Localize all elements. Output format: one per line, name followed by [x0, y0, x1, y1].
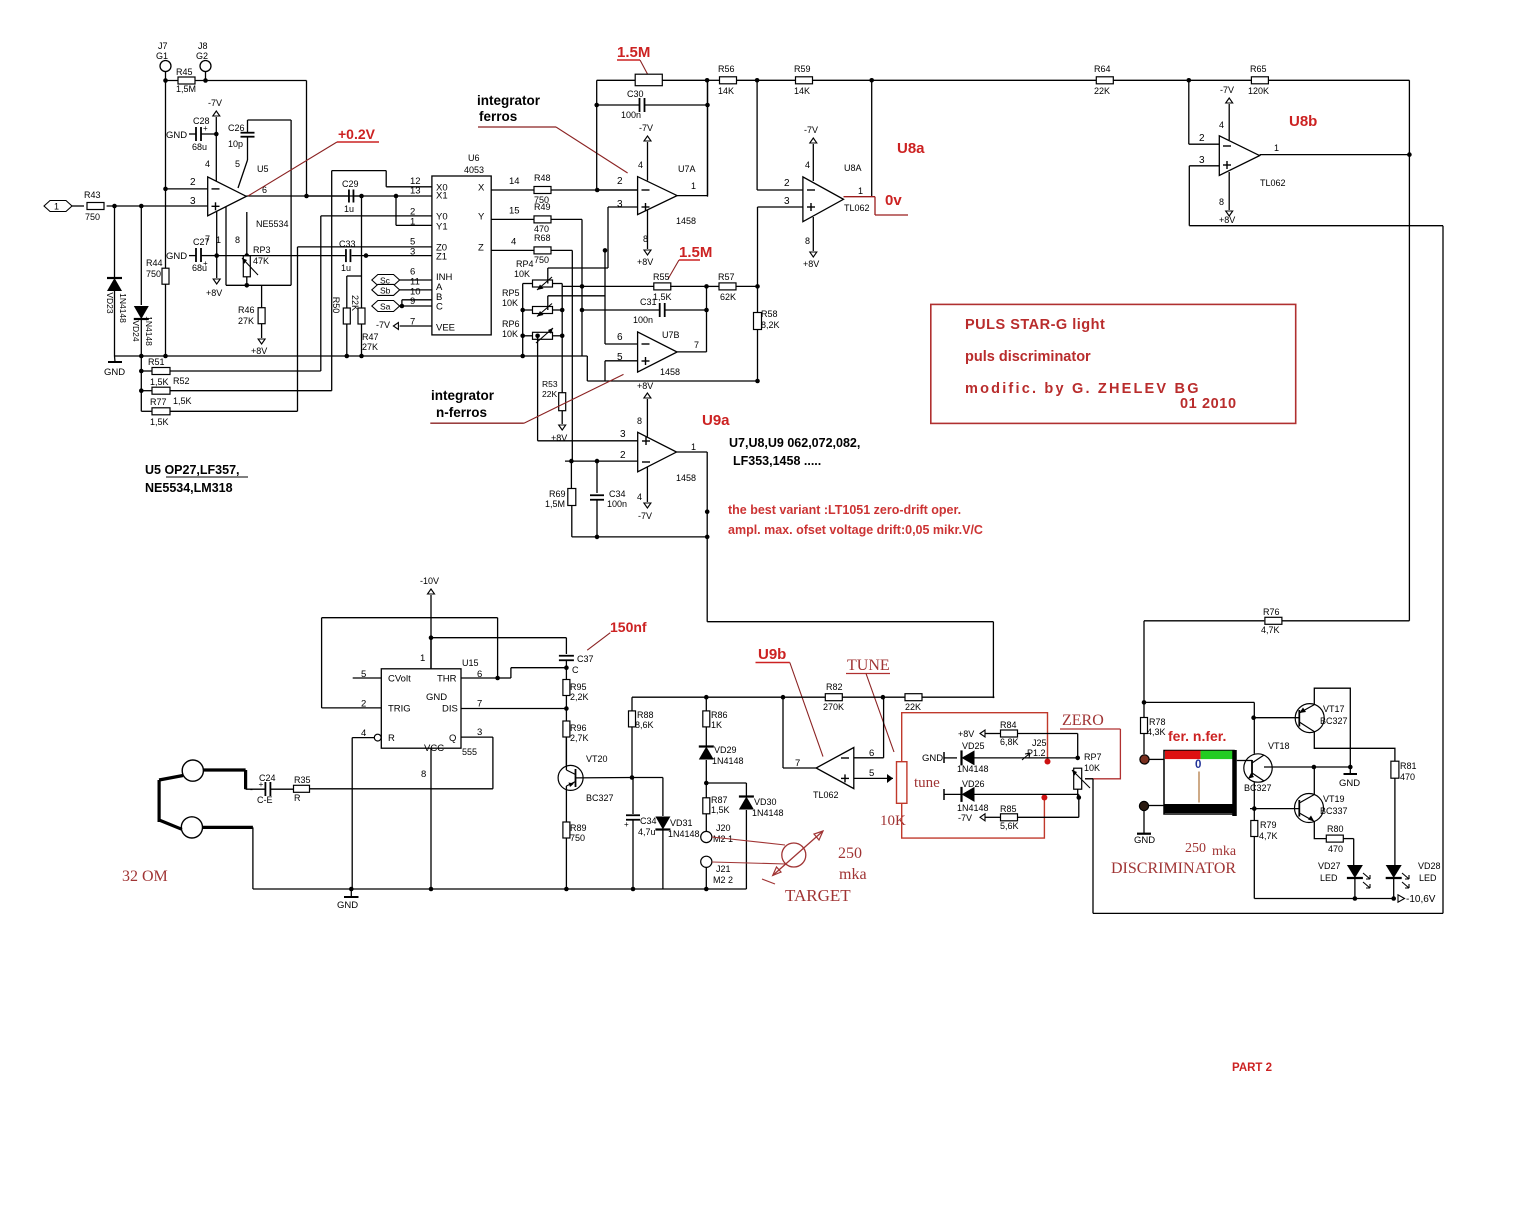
resistor R35: [294, 785, 310, 792]
svg-text:R: R: [294, 793, 301, 803]
svg-text:mka: mka: [839, 866, 867, 883]
svg-text:R55: R55: [653, 272, 670, 282]
power -10,6V rail: [1355, 898, 1394, 900]
wire U8b output: [1260, 154, 1410, 156]
svg-text:27K: 27K: [238, 316, 254, 326]
wire RP3 to R46: [246, 277, 248, 286]
wire RP4 wiper to U7A +: [547, 268, 549, 284]
svg-text:22K: 22K: [905, 702, 921, 712]
wire U5 output: [246, 195, 361, 197]
capacitor C26 10p: [241, 132, 255, 134]
power -7V U8a: [812, 144, 814, 181]
svg-text:1,5M: 1,5M: [176, 84, 196, 94]
svg-text:1N4148: 1N4148: [668, 829, 700, 839]
svg-text:mka: mka: [1212, 844, 1237, 859]
resistor R69 1,5M: [570, 461, 572, 489]
main ground bus y=356: [115, 355, 588, 357]
wire TRIG THR loop: [322, 707, 382, 709]
svg-text:+8V: +8V: [551, 433, 567, 443]
svg-text:C33: C33: [339, 239, 356, 249]
op-amp U8a: [803, 177, 844, 222]
svg-text:+0.2V: +0.2V: [338, 126, 376, 142]
wire U7B +input: [605, 360, 638, 362]
svg-text:47K: 47K: [253, 256, 269, 266]
svg-text:100n: 100n: [607, 499, 627, 509]
svg-text:1458: 1458: [660, 367, 680, 377]
svg-text:TL062: TL062: [844, 203, 870, 213]
ground bus bottom: [253, 888, 747, 890]
svg-text:J7: J7: [158, 41, 168, 51]
svg-text:4,3K: 4,3K: [1147, 727, 1166, 737]
resistor R58 8,2K: [757, 286, 759, 313]
svg-text:tune: tune: [914, 775, 940, 791]
wire Y feed down: [581, 219, 583, 356]
power -7V U8b: [1228, 104, 1230, 140]
svg-text:R88: R88: [637, 710, 654, 720]
svg-text:R51: R51: [148, 357, 165, 367]
svg-text:VD23: VD23: [105, 292, 115, 314]
wire U8b -input: [1188, 80, 1190, 144]
svg-text:4: 4: [638, 160, 643, 170]
power +8V U7A: [647, 210, 649, 249]
svg-text:13: 13: [410, 186, 421, 197]
svg-text:1: 1: [858, 186, 863, 196]
diode VD23 1N4148: [114, 206, 116, 277]
svg-text:X1: X1: [436, 190, 448, 201]
svg-text:5,6K: 5,6K: [1000, 821, 1019, 831]
svg-text:R43: R43: [84, 190, 101, 200]
headphone jack: [182, 760, 203, 781]
wire 555 pin1: [430, 638, 432, 669]
capacitor C37 150nf: [559, 655, 574, 657]
resistor R81 470: [1391, 761, 1399, 778]
op-amp U7A: [638, 177, 678, 215]
resistor R88 8,6K: [629, 711, 636, 727]
svg-text:10K: 10K: [514, 269, 530, 279]
power +8V U8b: [1228, 172, 1230, 210]
wire U7B -input from Z vertical: [604, 250, 606, 344]
svg-text:Z: Z: [478, 242, 484, 253]
wire U9a output to tune bus: [707, 621, 993, 623]
svg-text:n-ferros: n-ferros: [436, 405, 487, 420]
IC U6 4053: [432, 176, 491, 335]
power -7V U9a: [646, 467, 648, 502]
svg-text:G2: G2: [196, 51, 208, 61]
svg-text:2: 2: [784, 178, 790, 189]
wire X1 node to Y1: [395, 196, 397, 225]
svg-text:R45: R45: [176, 67, 193, 77]
wire DIS pin7: [461, 708, 566, 710]
ground GND meter: [1143, 811, 1145, 834]
svg-text:1K: 1K: [711, 720, 722, 730]
svg-text:R89: R89: [570, 823, 587, 833]
svg-text:470: 470: [1400, 772, 1415, 782]
resistor R53 22K: [559, 393, 566, 411]
svg-text:R56: R56: [718, 64, 735, 74]
svg-text:RP7: RP7: [1084, 752, 1102, 762]
svg-text:62K: 62K: [720, 292, 736, 302]
svg-text:R48: R48: [534, 173, 551, 183]
svg-text:C37: C37: [577, 654, 594, 664]
svg-text:32 OM: 32 OM: [122, 868, 168, 885]
svg-text:VD26: VD26: [962, 779, 985, 789]
wire R45 node to feedback vertical: [206, 80, 307, 82]
svg-text:VT18: VT18: [1268, 741, 1290, 751]
svg-text:C27: C27: [193, 237, 210, 247]
svg-text:BC327: BC327: [586, 793, 614, 803]
svg-text:22K: 22K: [1094, 86, 1110, 96]
input connector 1: [44, 201, 72, 212]
op-amp U9b (points left): [816, 748, 854, 789]
resistor R96 2,7K: [565, 709, 567, 722]
svg-text:3: 3: [784, 196, 790, 207]
transistor VT20 BC327: [558, 765, 583, 790]
diode VD29 1N4148: [699, 747, 714, 760]
svg-text:4,7K: 4,7K: [1261, 625, 1280, 635]
svg-text:U5 OP27,LF357,: U5 OP27,LF357,: [145, 463, 240, 477]
wire RP right rail to R53: [561, 284, 563, 393]
IC U15 555: [381, 669, 461, 748]
svg-text:ZERO: ZERO: [1062, 712, 1104, 729]
svg-text:+: +: [259, 779, 264, 789]
svg-text:C34: C34: [609, 489, 626, 499]
svg-text:VD27: VD27: [1318, 861, 1341, 871]
svg-text:U7,U8,U9 062,072,082,: U7,U8,U9 062,072,082,: [729, 436, 860, 450]
resistor R59 14K: [757, 79, 796, 81]
svg-text:VD30: VD30: [754, 797, 777, 807]
svg-text:6,8K: 6,8K: [1000, 737, 1019, 747]
wire U5 pin7 to +8V: [216, 212, 218, 256]
svg-text:U8A: U8A: [844, 163, 862, 173]
wire C26 feedback loop to RP3 bottom: [248, 119, 292, 121]
svg-text:PULS STAR-G light: PULS STAR-G light: [965, 317, 1105, 333]
svg-text:1u: 1u: [341, 263, 351, 273]
wire pin5 stub: [353, 677, 382, 679]
wire right feedback vertical (to R76): [1408, 80, 1410, 621]
svg-text:RP6: RP6: [502, 319, 520, 329]
wire U9b -input up: [854, 757, 884, 759]
svg-text:LF353,1458 .....: LF353,1458 .....: [733, 454, 821, 468]
wire terminal to meter: [1149, 758, 1164, 760]
svg-text:R57: R57: [718, 272, 735, 282]
svg-text:PART 2: PART 2: [1232, 1062, 1272, 1074]
svg-text:DISCRIMINATOR: DISCRIMINATOR: [1111, 860, 1236, 877]
capacitor C24 C-E: [246, 788, 266, 790]
svg-text:1: 1: [420, 653, 425, 664]
transistor VT17 BC327: [1295, 704, 1324, 733]
capacitor C31 100n: [582, 309, 659, 311]
resistor R79 4,7K: [1253, 809, 1255, 821]
svg-text:Q: Q: [449, 733, 456, 744]
svg-text:R84: R84: [1000, 720, 1017, 730]
svg-text:1N4148: 1N4148: [957, 803, 989, 813]
resistor R55 1,5K: [562, 285, 654, 287]
wire C29 node down to R47, jog to R50: [361, 196, 363, 308]
svg-text:1,5K: 1,5K: [173, 396, 192, 406]
svg-text:DIS: DIS: [442, 704, 458, 715]
svg-text:R65: R65: [1250, 64, 1267, 74]
ground GND left: [139, 354, 144, 359]
svg-text:R49: R49: [534, 202, 551, 212]
resistor R45: [166, 80, 206, 82]
svg-text:1N4148: 1N4148: [118, 293, 128, 323]
resistor R47 27K: [358, 308, 365, 324]
svg-text:1.5M: 1.5M: [617, 44, 650, 61]
svg-text:VT20: VT20: [586, 754, 608, 764]
wire RP7 wiper to discriminator loop: [1085, 778, 1093, 780]
svg-text:puls discriminator: puls discriminator: [965, 349, 1091, 365]
svg-text:the best variant :LT1051 zero-: the best variant :LT1051 zero-drift oper…: [728, 503, 961, 517]
resistor R49 470 (Y output): [491, 218, 534, 220]
svg-text:750: 750: [146, 269, 161, 279]
wire VT17 emitter loop: [1314, 688, 1350, 767]
svg-text:BC327: BC327: [1320, 716, 1348, 726]
svg-text:1N4148: 1N4148: [957, 764, 989, 774]
svg-text:U5: U5: [257, 164, 269, 174]
svg-text:100n: 100n: [633, 315, 653, 325]
svg-text:270K: 270K: [823, 702, 844, 712]
svg-text:ferros: ferros: [479, 109, 517, 124]
wire C31/R55 junction vertical: [706, 286, 708, 352]
svg-text:Z1: Z1: [436, 251, 447, 262]
svg-text:U7A: U7A: [678, 164, 696, 174]
svg-text:1N4148: 1N4148: [712, 756, 744, 766]
svg-text:ampl. max. ofset voltage dri: ampl. max. ofset voltage drift:0,05 mikr…: [728, 523, 983, 537]
svg-text:R81: R81: [1400, 761, 1417, 771]
wire tune top bus: [632, 696, 783, 698]
red wires tune pot into zero net: [902, 713, 1048, 762]
resistor R50 22K: [343, 308, 350, 324]
wire U9a output down: [677, 451, 708, 453]
svg-text:NE5534,LM318: NE5534,LM318: [145, 481, 233, 495]
transistor VT18 BC327: [1244, 754, 1272, 782]
svg-text:10K: 10K: [502, 329, 518, 339]
op-amp U7B: [638, 332, 678, 372]
svg-text:R: R: [388, 733, 395, 744]
svg-text:250: 250: [1185, 841, 1206, 856]
svg-text:J8: J8: [198, 41, 208, 51]
wire VT17 collector to R81: [1314, 732, 1395, 762]
red wire J21 to target meter: [712, 862, 786, 864]
wire VCC pin8 down: [430, 748, 432, 889]
svg-text:CVolt: CVolt: [388, 674, 411, 685]
svg-text:4053: 4053: [464, 165, 484, 175]
svg-text:R79: R79: [1260, 820, 1277, 830]
wire RP5 wiper to U7B +: [547, 296, 549, 310]
svg-text:TRIG: TRIG: [388, 704, 411, 715]
svg-text:8,2K: 8,2K: [761, 320, 780, 330]
svg-text:U7B: U7B: [662, 330, 680, 340]
meter body: [1164, 751, 1234, 815]
svg-text:GND: GND: [1134, 835, 1155, 846]
LED VD28: [1386, 865, 1402, 878]
svg-text:+8V: +8V: [1219, 215, 1235, 225]
svg-text:+: +: [203, 259, 208, 268]
resistor 22K (tune): [883, 696, 906, 698]
svg-text:C: C: [572, 665, 579, 675]
svg-text:8: 8: [805, 236, 810, 246]
svg-text:C34: C34: [640, 816, 657, 826]
diode VD24 1N4148: [140, 206, 142, 305]
svg-text:R64: R64: [1094, 64, 1111, 74]
svg-text:2,2K: 2,2K: [570, 692, 589, 702]
connector Sb: [372, 284, 400, 295]
svg-text:R44: R44: [146, 258, 163, 268]
svg-text:10K: 10K: [1084, 763, 1100, 773]
svg-text:GND: GND: [337, 900, 358, 911]
svg-text:VEE: VEE: [436, 322, 455, 333]
resistor R86 1K: [704, 695, 709, 700]
resistor R84 6,8K: [1001, 730, 1018, 737]
resistor R80 470: [1326, 835, 1343, 842]
svg-text:X: X: [478, 182, 485, 193]
resistor R95 2,2K: [565, 668, 567, 680]
resistor R77 1,5K: [141, 410, 152, 412]
red wire 0v output: [844, 196, 876, 198]
svg-text:3: 3: [620, 429, 626, 440]
svg-text:10p: 10p: [228, 139, 243, 149]
svg-text:1: 1: [54, 202, 59, 212]
wire VT18 emitter vertical rail: [1253, 718, 1255, 754]
wire top bus down to U8a -: [756, 80, 758, 190]
capacitor C30 100n: [597, 104, 639, 106]
svg-text:4: 4: [805, 160, 810, 170]
svg-text:-10V: -10V: [420, 576, 439, 586]
svg-text:R95: R95: [570, 682, 587, 692]
svg-text:C26: C26: [228, 123, 245, 133]
svg-text:+: +: [624, 820, 629, 829]
svg-text:68u: 68u: [192, 142, 207, 152]
wire VT19 collector up: [1313, 767, 1315, 795]
connector J7 G1: [160, 61, 171, 72]
svg-text:-7V: -7V: [208, 98, 222, 108]
svg-text:-7V: -7V: [638, 511, 652, 521]
wire top bus to R64: [872, 79, 1097, 81]
wire U9b +input to tune wiper: [854, 777, 893, 779]
power +8V U9a: [646, 399, 648, 437]
wire U7A -input: [597, 189, 637, 191]
svg-text:8: 8: [1219, 197, 1224, 207]
svg-text:R68: R68: [534, 233, 551, 243]
svg-text:+8V: +8V: [958, 729, 974, 739]
svg-text:Sb: Sb: [380, 286, 391, 296]
svg-text:THR: THR: [437, 674, 457, 685]
node U5 output junction: [304, 194, 309, 199]
svg-text:1,5K: 1,5K: [150, 417, 169, 427]
svg-text:VD31: VD31: [670, 818, 693, 828]
svg-text:BC337: BC337: [1320, 806, 1348, 816]
svg-text:R85: R85: [1000, 804, 1017, 814]
resistor R78 4,3K: [1143, 702, 1145, 717]
svg-text:modific. by G. ZHELEV BG: modific. by G. ZHELEV BG: [965, 381, 1201, 397]
wire G2 down: [205, 72, 207, 81]
svg-text:C30: C30: [627, 89, 644, 99]
wire feedback verticals U7A: [596, 80, 598, 190]
svg-text:750: 750: [85, 212, 100, 222]
svg-text:22K: 22K: [542, 389, 557, 399]
power -7V U7A: [647, 142, 649, 181]
svg-text:R59: R59: [794, 64, 811, 74]
svg-text:14: 14: [509, 176, 520, 187]
resistor R76 4,7K: [1282, 620, 1409, 622]
svg-text:2: 2: [620, 450, 626, 461]
wire Q pin3 to R35 line: [461, 736, 493, 738]
svg-text:R58: R58: [761, 309, 778, 319]
wire U8a output feedback up: [871, 80, 873, 196]
svg-text:-: -: [250, 784, 253, 794]
svg-text:-10,6V: -10,6V: [1406, 894, 1436, 905]
svg-text:RP5: RP5: [502, 288, 520, 298]
svg-text:VD24: VD24: [131, 320, 141, 342]
svg-text:750: 750: [534, 255, 549, 265]
svg-text:1N4148: 1N4148: [752, 808, 784, 818]
resistor R68 750 (Z output): [491, 249, 534, 251]
svg-text:U8b: U8b: [1289, 113, 1317, 130]
svg-text:14K: 14K: [794, 86, 810, 96]
svg-text:100n: 100n: [621, 110, 641, 120]
resistor R43 750: [72, 205, 84, 207]
ground GND VT: [1349, 767, 1351, 774]
diode VD31 1N4148: [662, 778, 664, 817]
svg-text:R80: R80: [1327, 824, 1344, 834]
svg-text:1.5M: 1.5M: [679, 244, 712, 261]
power -7V at VEE: [400, 325, 432, 327]
resistor R56 14K: [707, 79, 720, 81]
wire U9a feedback bottom: [572, 536, 707, 538]
svg-text:750: 750: [570, 833, 585, 843]
svg-text:1458: 1458: [676, 473, 696, 483]
connector J20 M2.1: [701, 831, 712, 842]
svg-text:8: 8: [235, 235, 240, 245]
resistor R44 750: [165, 189, 167, 269]
wire U9a -input: [565, 460, 638, 462]
wire G1 down: [165, 72, 167, 189]
power +8V U8a: [812, 217, 814, 251]
svg-text:1: 1: [1274, 143, 1279, 153]
svg-text:4,7u: 4,7u: [638, 827, 656, 837]
svg-text:R46: R46: [238, 305, 255, 315]
wire RP6 tap down to U9a +: [537, 336, 539, 441]
svg-text:1: 1: [691, 181, 696, 191]
svg-text:LED: LED: [1419, 873, 1437, 883]
svg-text:C29: C29: [342, 179, 359, 189]
svg-text:VT17: VT17: [1323, 704, 1345, 714]
svg-text:R77: R77: [150, 397, 167, 407]
svg-text:+8V: +8V: [637, 257, 653, 267]
red wire J20 to target meter: [712, 837, 785, 845]
svg-text:VD28: VD28: [1418, 861, 1441, 871]
tune potentiometer (red): [897, 762, 907, 804]
resistor R51 1,5K: [140, 356, 142, 411]
capacitor C29 1u: [307, 195, 349, 197]
svg-text:VD25: VD25: [962, 741, 985, 751]
svg-text:C-E: C-E: [257, 795, 273, 805]
diode VD30 1N4148: [706, 782, 746, 784]
svg-text:R53: R53: [542, 379, 558, 389]
svg-text:4: 4: [637, 492, 642, 502]
svg-text:RP3: RP3: [253, 245, 271, 255]
svg-text:+8V: +8V: [637, 381, 653, 391]
terminal meter top: [1140, 755, 1149, 764]
diode VD25 1N4148: [962, 750, 975, 765]
connector J21 M2.2: [701, 856, 712, 867]
svg-text:integrator: integrator: [477, 93, 541, 108]
svg-text:J25: J25: [1032, 738, 1047, 748]
svg-text:U15: U15: [462, 658, 479, 668]
svg-text:15: 15: [509, 206, 520, 217]
resistor R52 1,5K: [139, 388, 144, 393]
svg-text:4,7K: 4,7K: [1259, 831, 1278, 841]
